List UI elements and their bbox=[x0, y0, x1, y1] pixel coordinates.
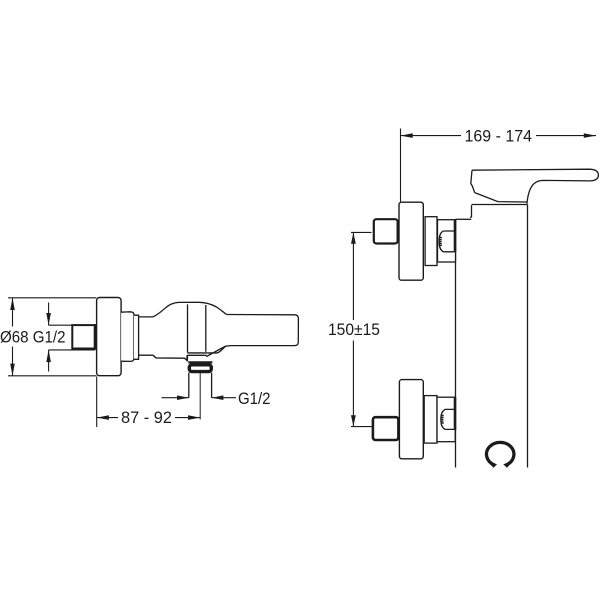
body left edge bbox=[455, 220, 457, 468]
lever left edge bbox=[471, 170, 475, 192]
dim square: extension lines bbox=[49, 325, 95, 350]
hose hook bbox=[487, 442, 514, 466]
svg-text:Ø68 G1/2: Ø68 G1/2 bbox=[0, 327, 66, 346]
square/flange joint thick edge bbox=[94, 324, 97, 350]
dim G1/2 outlet: arrowheads bbox=[177, 395, 223, 400]
lever base slant bbox=[475, 193, 527, 202]
outlet tube bbox=[189, 373, 212, 398]
neck bbox=[139, 317, 153, 355]
dim square: arrowheads bbox=[46, 313, 51, 362]
body bottom outline bbox=[153, 346, 226, 360]
square thick bottom edge bbox=[72, 348, 96, 350]
bottom union: knurl hatch bbox=[440, 415, 443, 423]
G1/2 wall connector square bbox=[72, 325, 95, 348]
valve body bulge bbox=[153, 302, 227, 317]
svg-text:150±15: 150±15 bbox=[328, 320, 380, 339]
outlet coupling nut (dark) bbox=[189, 365, 211, 372]
step ring 2 bbox=[134, 315, 139, 359]
step ring 1 bbox=[121, 312, 134, 362]
cartridge collar bbox=[470, 205, 528, 218]
dim 169-174: dimension line bbox=[401, 135, 597, 137]
bottom union: ring 2 bbox=[437, 397, 455, 442]
top union: joint thick edge bbox=[454, 220, 457, 253]
outlet centerline bbox=[199, 373, 201, 420]
dim 150±15: dimension line bbox=[352, 232, 354, 426]
svg-text:87 - 92: 87 - 92 bbox=[121, 408, 172, 427]
top union: knurl hatch bbox=[439, 238, 442, 246]
body joint line 2 bbox=[205, 305, 207, 352]
dim 87-92: dimension line bbox=[97, 417, 201, 419]
body right edge bbox=[527, 205, 529, 468]
wall flange (escutcheon, side) bbox=[97, 298, 122, 376]
dim G1/2 outlet: line left bbox=[162, 397, 237, 399]
dim 87-92: arrowheads bbox=[97, 415, 201, 420]
bottom union: knurl insert bbox=[441, 409, 455, 429]
lever handle (front/side) bbox=[472, 169, 598, 204]
svg-text:169 - 174: 169 - 174 bbox=[465, 127, 533, 146]
body joint line 1 bbox=[187, 304, 189, 352]
top union: ring 1 bbox=[425, 217, 437, 266]
dim Ø68: arrowheads bbox=[10, 298, 15, 376]
dim square: line+tails bbox=[48, 303, 50, 372]
dim 87-92: extension line from flange bbox=[96, 377, 98, 428]
body top shoulder line bbox=[456, 218, 472, 220]
bottom union: hex nut bbox=[373, 417, 399, 440]
top union: hex nut bbox=[374, 219, 398, 243]
bottom union: joint thick edge bbox=[454, 397, 457, 430]
outlet step left edge bbox=[186, 355, 188, 361]
bottom union: flange bbox=[399, 380, 423, 459]
top union: flange bbox=[399, 202, 423, 280]
dim Ø68: extension lines bbox=[8, 298, 96, 376]
svg-text:G1/2: G1/2 bbox=[238, 389, 271, 408]
dim Ø68: dimension line bbox=[12, 298, 14, 376]
bottom union: ring 1 bbox=[424, 396, 437, 444]
dim 150±15: arrowheads bbox=[351, 233, 356, 427]
dim 169-174: extension line bbox=[400, 129, 402, 202]
top union: knurl insert bbox=[439, 231, 454, 252]
dim 150±15: extension lines bbox=[351, 232, 372, 426]
dim 169-174: arrowheads bbox=[401, 133, 597, 138]
lever grip (side) bbox=[226, 315, 299, 347]
outlet dark top edge bbox=[188, 361, 212, 363]
outlet step collar bbox=[187, 346, 226, 356]
top union: ring 2 bbox=[438, 220, 456, 262]
